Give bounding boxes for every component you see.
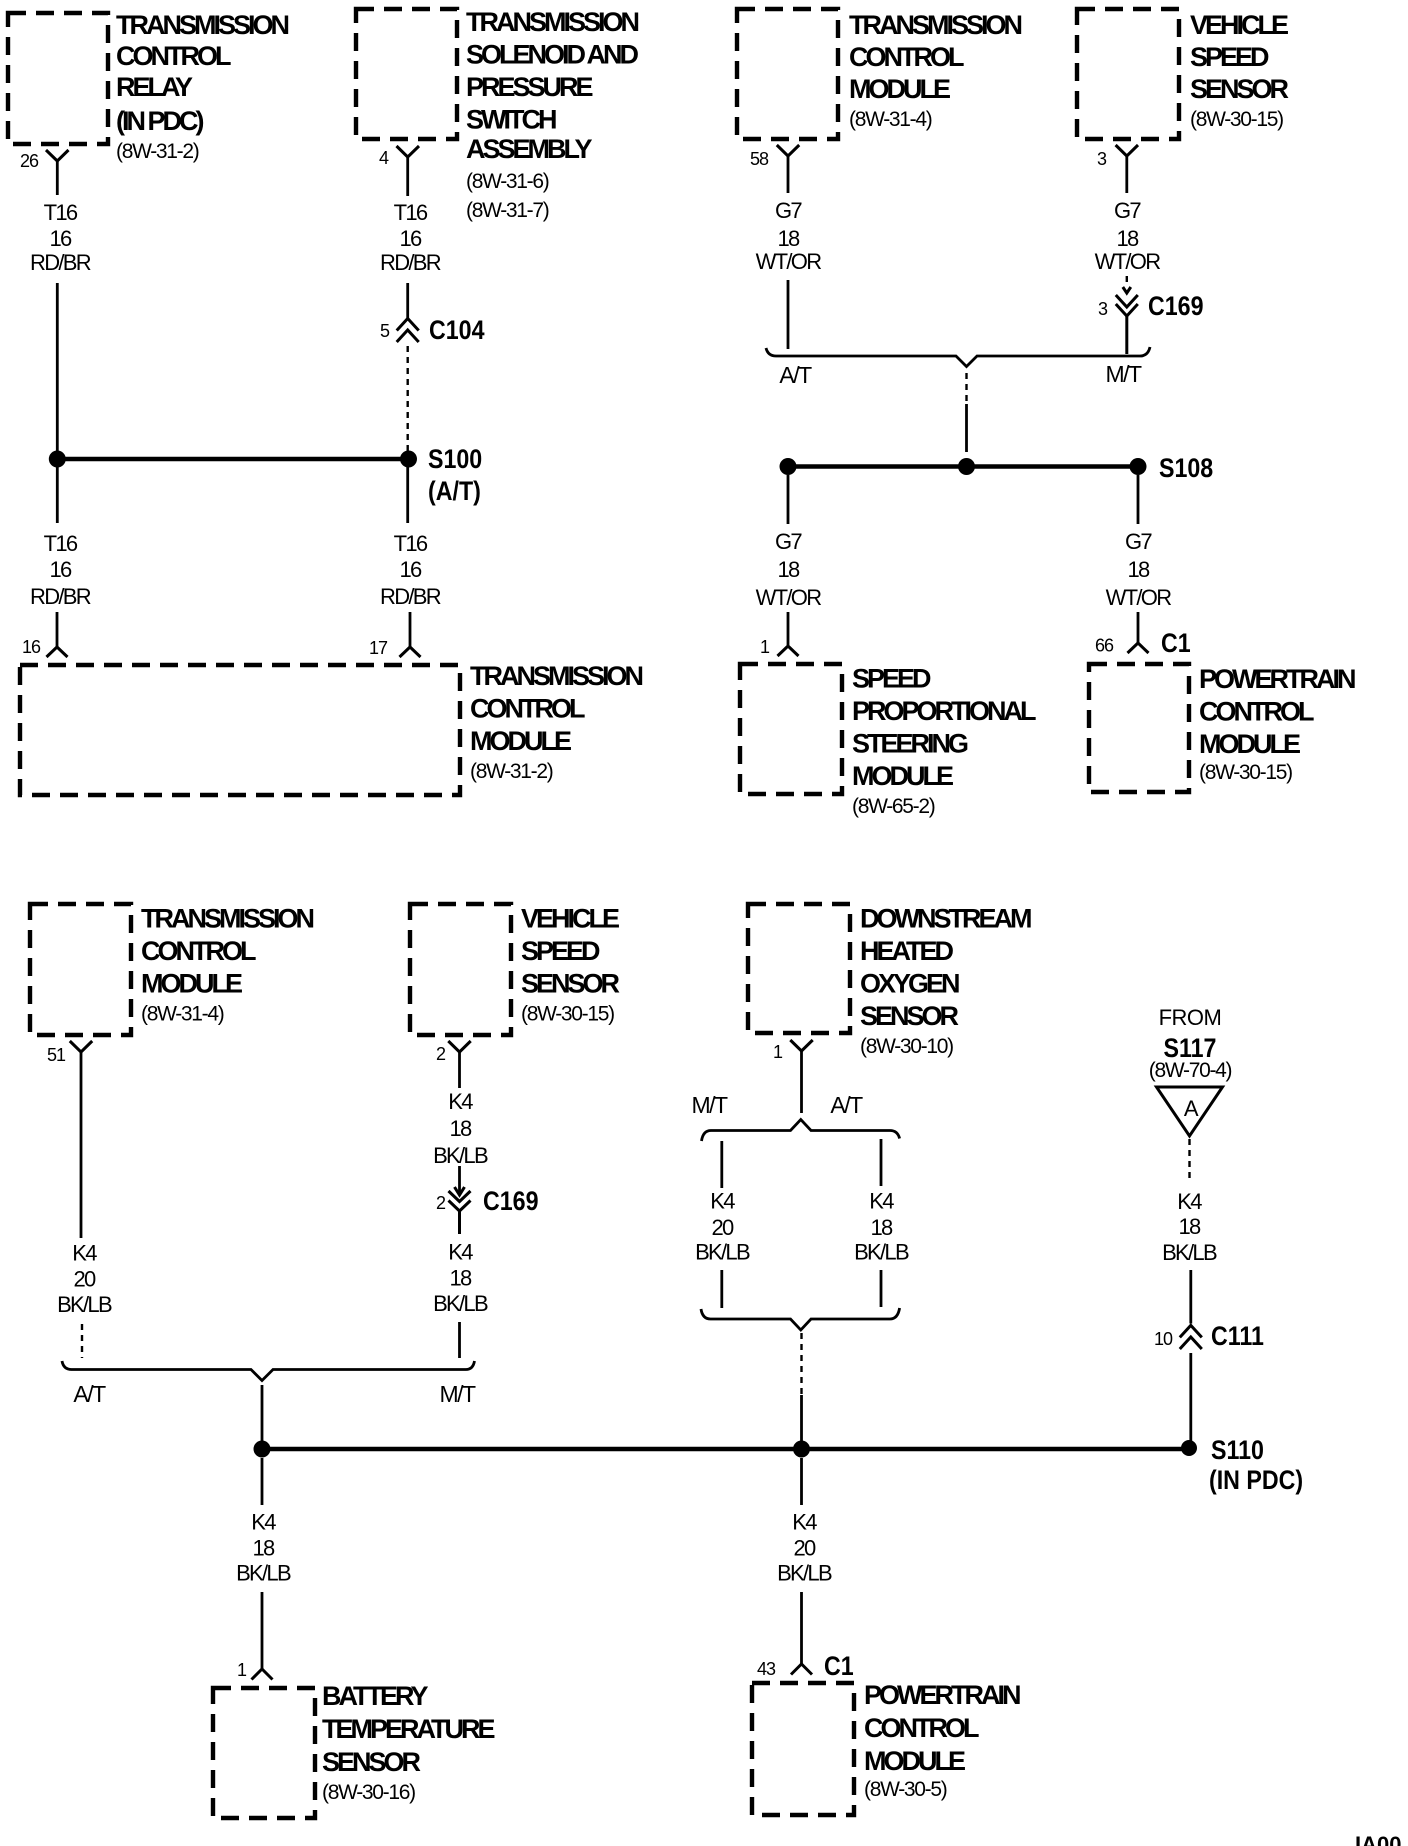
svg-text:BK/LB: BK/LB [57,1292,112,1317]
svg-text:3: 3 [1097,149,1107,169]
M/T A/T splitting brace for O2 sensor [691,1092,899,1141]
pin 1 of downstream heated oxygen sensor [773,1040,813,1062]
connector C104 pin 5 [380,315,485,345]
vehicle speed sensor box bottom [410,904,620,1036]
wire G7 18 WT/OR from S108 to steering module [756,475,822,645]
svg-text:18: 18 [449,1116,472,1141]
svg-text:17: 17 [369,638,388,658]
wire K4 20 BK/LB from TCM pin 51 [57,1052,112,1358]
svg-text:BK/LB: BK/LB [433,1143,488,1168]
svg-text:RD/BR: RD/BR [30,250,91,275]
svg-text:BK/LB: BK/LB [433,1291,488,1316]
svg-text:BATTERY: BATTERY [322,1681,428,1711]
svg-text:WT/OR: WT/OR [1095,249,1161,274]
svg-text:(8W-65-2): (8W-65-2) [852,795,935,818]
svg-text:TRANSMISSION: TRANSMISSION [466,7,639,37]
svg-text:POWERTRAIN: POWERTRAIN [864,1680,1020,1710]
svg-text:K4: K4 [448,1240,473,1265]
svg-text:18: 18 [777,557,800,582]
svg-text:BK/LB: BK/LB [236,1561,291,1586]
svg-text:BK/LB: BK/LB [1162,1240,1217,1265]
pin 16 of transmission control module [22,612,68,657]
connector C169 pin 2 [436,1166,539,1234]
svg-text:66: 66 [1095,636,1114,656]
svg-text:T16: T16 [44,200,78,225]
svg-text:BK/LB: BK/LB [777,1561,832,1586]
svg-text:A/T: A/T [779,362,812,388]
svg-text:20: 20 [711,1215,734,1240]
svg-text:A/T: A/T [73,1381,106,1407]
svg-text:S108: S108 [1159,453,1213,483]
svg-text:43: 43 [757,1659,776,1679]
svg-text:C111: C111 [1211,1321,1264,1351]
svg-text:K4: K4 [72,1241,97,1266]
wire G7 18 WT/OR from S108 to PCM [1106,475,1172,643]
svg-text:T16: T16 [394,531,428,556]
FROM S117 reference triangle [1149,1005,1232,1136]
svg-text:(8W-30-16): (8W-30-16) [322,1781,415,1804]
svg-text:18: 18 [1178,1214,1201,1239]
svg-text:WT/OR: WT/OR [756,585,822,610]
svg-text:1: 1 [773,1042,783,1062]
svg-text:K4: K4 [710,1189,735,1214]
svg-text:FROM: FROM [1159,1005,1222,1030]
battery temperature sensor box [213,1681,494,1818]
svg-text:18: 18 [252,1536,275,1561]
svg-text:(8W-30-15): (8W-30-15) [1190,108,1283,131]
svg-text:DOWNSTREAM: DOWNSTREAM [860,904,1031,934]
svg-text:16: 16 [22,637,41,657]
pin 1 of battery temperature sensor [237,1660,273,1680]
svg-text:SENSOR: SENSOR [521,969,620,999]
wire K4 18 BK/LB below C169 [433,1240,488,1359]
svg-text:T16: T16 [394,200,428,225]
svg-text:CONTROL: CONTROL [1199,697,1314,727]
svg-text:RELAY: RELAY [116,72,193,102]
transmission control module box (8W-31-4) bottom left [30,904,314,1036]
svg-text:(8W-30-15): (8W-30-15) [1199,761,1292,784]
svg-text:ASSEMBLY: ASSEMBLY [466,134,593,164]
svg-text:(8W-70-4): (8W-70-4) [1149,1059,1232,1082]
svg-text:SENSOR: SENSOR [1190,74,1289,104]
merging brace below O2 sensor branches [701,1308,900,1330]
transmission control relay box (in PDC) [8,10,289,163]
vehicle speed sensor box top right [1077,9,1289,139]
svg-text:RD/BR: RD/BR [30,584,91,609]
svg-text:MODULE: MODULE [849,74,950,104]
wire from brace to splice S110 [261,1385,264,1444]
svg-text:C104: C104 [429,315,485,345]
svg-text:VEHICLE: VEHICLE [521,904,619,934]
svg-text:G7: G7 [775,529,802,554]
svg-text:CONTROL: CONTROL [849,42,964,72]
svg-text:(A/T): (A/T) [428,476,481,506]
wire T16 16 RD/BR from solenoid pin 4 [380,157,441,319]
svg-text:BK/LB: BK/LB [854,1240,909,1265]
svg-text:(8W-31-2): (8W-31-2) [116,140,199,163]
svg-text:MODULE: MODULE [470,726,571,756]
pin 26 of transmission control relay [20,150,69,171]
svg-text:OXYGEN: OXYGEN [860,969,959,999]
pin 1 of speed proportional steering module [760,637,799,657]
svg-text:SENSOR: SENSOR [322,1747,421,1777]
svg-text:M/T: M/T [439,1381,476,1407]
svg-text:C169: C169 [1148,291,1204,321]
pin 43 connector C1 of powertrain control module [757,1651,854,1681]
wire K4 20 BK/LB from S110 to powertrain control module [777,1458,832,1664]
svg-text:16: 16 [49,557,72,582]
transmission control module box (8W-31-2) [20,661,643,795]
A/T M/T gathering brace top right [766,347,1150,388]
wire from C111 to splice S110 [1189,1353,1192,1441]
connector C111 pin 10 [1154,1321,1264,1351]
svg-text:16: 16 [49,226,72,251]
svg-text:CONTROL: CONTROL [470,694,585,724]
svg-text:(IN PDC): (IN PDC) [1209,1465,1303,1495]
splice S108 [780,453,1214,483]
svg-text:TRANSMISSION: TRANSMISSION [116,10,289,40]
splice S100 (A/T) [49,444,482,506]
svg-text:20: 20 [793,1536,816,1561]
svg-text:POWERTRAIN: POWERTRAIN [1199,664,1355,694]
svg-text:2: 2 [436,1193,446,1213]
svg-text:WT/OR: WT/OR [756,249,822,274]
svg-text:M/T: M/T [691,1092,728,1118]
pin 4 of solenoid assembly [379,146,419,168]
wire T16 16 RD/BR from relay pin 26 [30,161,91,451]
svg-text:IA00: IA00 [1355,1832,1401,1846]
pin 17 of transmission control module [369,612,421,658]
svg-text:K4: K4 [448,1089,473,1114]
speed proportional steering module box [740,664,1036,819]
svg-text:CONTROL: CONTROL [116,41,231,71]
svg-text:K4: K4 [1177,1189,1202,1214]
powertrain control module box (8W-30-15) [1089,664,1355,792]
A/T M/T gathering brace bottom left [62,1361,476,1407]
wire from brace to splice S108 [965,373,967,404]
svg-text:1: 1 [237,1660,247,1680]
svg-text:K4: K4 [251,1510,276,1535]
connector C169 pin 3 [1098,276,1204,354]
wire T16 16 RD/BR from S100 to TCM pin 17 [380,467,441,609]
pin 3 of vehicle speed sensor [1097,145,1138,169]
svg-text:(8W-31-6): (8W-31-6) [466,170,549,193]
svg-text:CONTROL: CONTROL [141,936,256,966]
svg-text:2: 2 [436,1044,446,1064]
svg-text:STEERING: STEERING [852,729,968,759]
svg-text:18: 18 [449,1266,472,1291]
svg-text:TRANSMISSION: TRANSMISSION [849,10,1022,40]
svg-text:K4: K4 [792,1510,817,1535]
svg-text:3: 3 [1098,299,1108,319]
svg-text:1: 1 [760,637,770,657]
svg-text:5: 5 [380,321,390,341]
svg-text:WT/OR: WT/OR [1106,585,1172,610]
wire K4 18 BK/LB from S117 triangle [1162,1139,1217,1324]
pin 58 of transmission control module [750,145,799,169]
splice S110 (IN PDC) [254,1435,1304,1495]
pin 66 connector C1 of powertrain control module [1095,628,1191,658]
wire G7 18 WT/OR from TCM pin 58 [756,156,822,349]
wire T16 16 RD/BR from S100 to TCM pin 16 [30,467,91,609]
pin 2 of vehicle speed sensor [436,1041,471,1064]
svg-text:CONTROL: CONTROL [864,1713,979,1743]
svg-text:(IN PDC): (IN PDC) [116,106,203,136]
transmission solenoid and pressure switch assembly box [356,7,639,222]
svg-text:(8W-31-7): (8W-31-7) [466,199,549,222]
svg-text:MODULE: MODULE [852,761,953,791]
svg-text:M/T: M/T [1105,361,1142,387]
svg-text:A/T: A/T [830,1092,863,1118]
svg-text:SPEED: SPEED [521,936,600,966]
pin 51 of transmission control module [47,1041,92,1065]
svg-text:51: 51 [47,1045,66,1065]
svg-text:(8W-31-2): (8W-31-2) [470,760,553,783]
svg-text:TRANSMISSION: TRANSMISSION [470,661,643,691]
powertrain control module box (8W-30-5) [752,1680,1020,1815]
svg-text:TRANSMISSION: TRANSMISSION [141,904,314,934]
svg-text:SPEED: SPEED [1190,42,1269,72]
wire G7 18 WT/OR from VSS pin 3 [1095,156,1161,274]
wire from merging brace to splice S110 [800,1333,802,1444]
svg-text:MODULE: MODULE [1199,729,1300,759]
svg-text:RD/BR: RD/BR [380,584,441,609]
svg-text:TEMPERATURE: TEMPERATURE [322,1714,494,1744]
svg-text:18: 18 [870,1215,893,1240]
svg-text:G7: G7 [1114,198,1141,223]
svg-text:C1: C1 [1161,628,1191,658]
svg-text:HEATED: HEATED [860,936,954,966]
svg-text:18: 18 [777,226,800,251]
transmission control module box (8W-31-4) top right [737,9,1022,139]
wire from O2 sensor pin 1 to splitting brace [800,1051,803,1113]
svg-text:(8W-31-4): (8W-31-4) [141,1003,224,1026]
svg-text:MODULE: MODULE [864,1746,965,1776]
svg-text:SENSOR: SENSOR [860,1001,959,1031]
svg-text:58: 58 [750,149,769,169]
svg-text:VEHICLE: VEHICLE [1190,10,1288,40]
svg-text:S110: S110 [1211,1435,1264,1465]
wire below C104 to splice S100 [407,346,409,451]
svg-text:MODULE: MODULE [141,969,242,999]
downstream heated oxygen sensor box [748,904,1031,1059]
svg-text:16: 16 [399,226,422,251]
svg-text:S100: S100 [428,444,482,474]
svg-text:RD/BR: RD/BR [380,250,441,275]
svg-text:10: 10 [1154,1329,1173,1349]
svg-text:SWITCH: SWITCH [466,105,556,135]
svg-text:T16: T16 [44,531,78,556]
svg-text:4: 4 [379,148,389,168]
svg-text:K4: K4 [869,1189,894,1214]
svg-text:(8W-30-10): (8W-30-10) [860,1035,953,1058]
svg-text:G7: G7 [1125,529,1152,554]
svg-text:(8W-30-15): (8W-30-15) [521,1003,614,1026]
svg-text:(8W-31-4): (8W-31-4) [849,108,932,131]
svg-text:C1: C1 [824,1651,854,1681]
wire K4 18 BK/LB right branch (A/T) [854,1139,909,1307]
wire K4 18 BK/LB from VSS pin 2 [433,1052,488,1168]
svg-text:G7: G7 [775,198,802,223]
svg-text:A: A [1184,1096,1199,1121]
wire K4 18 BK/LB from S110 to battery temperature sensor [236,1458,291,1669]
svg-text:BK/LB: BK/LB [695,1240,750,1265]
svg-text:26: 26 [20,151,39,171]
svg-text:SPEED: SPEED [852,664,931,694]
svg-text:16: 16 [399,557,422,582]
svg-text:PROPORTIONAL: PROPORTIONAL [852,696,1036,726]
svg-text:PRESSURE: PRESSURE [466,72,593,102]
svg-text:18: 18 [1116,226,1139,251]
svg-text:C169: C169 [483,1186,539,1216]
svg-text:(8W-30-5): (8W-30-5) [864,1778,947,1801]
svg-text:SOLENOID AND: SOLENOID AND [466,40,639,70]
svg-text:18: 18 [1127,557,1150,582]
svg-text:20: 20 [73,1267,96,1292]
wire K4 20 BK/LB left branch (M/T) [695,1141,750,1308]
